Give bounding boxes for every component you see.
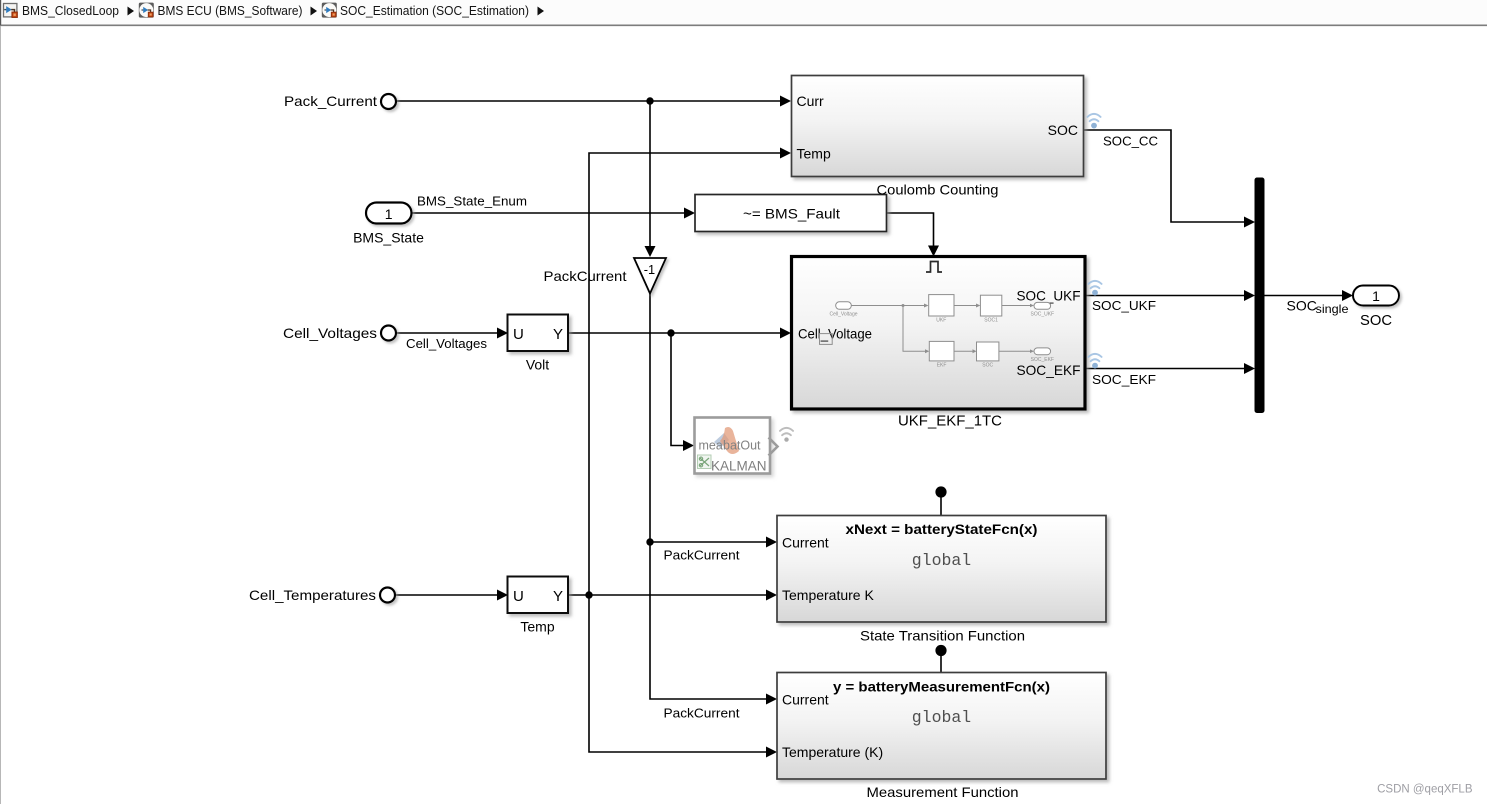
wire Temp selector to State Transition Temperature K bbox=[569, 594, 768, 596]
svg-text:SOC_EKF: SOC_EKF bbox=[1017, 362, 1081, 378]
wire stub Measurement top bbox=[940, 655, 942, 673]
inport Cell_Voltages bbox=[381, 326, 396, 341]
preview arrowheads bbox=[924, 304, 929, 308]
preview box EKF bbox=[929, 341, 954, 361]
outport SOC bbox=[1353, 286, 1399, 306]
svg-text:batOut: batOut bbox=[723, 439, 761, 453]
function State Transition bbox=[777, 516, 1106, 623]
svg-text:Temperature K: Temperature K bbox=[782, 587, 874, 603]
svg-text:PackCurrent: PackCurrent bbox=[544, 268, 627, 284]
badge wifi SOC_CC bbox=[1087, 114, 1100, 129]
arrow into UKF Cell_Voltage bbox=[780, 328, 791, 339]
arrow into Coulomb Curr bbox=[780, 96, 791, 107]
compare block ~= BMS_Fault bbox=[695, 195, 887, 232]
svg-text:Measurement Function: Measurement Function bbox=[867, 784, 1019, 800]
arrow into Measurement Temperature bbox=[766, 747, 777, 758]
svg-text:BMS_ClosedLoop: BMS_ClosedLoop bbox=[22, 4, 119, 18]
selector Volt bbox=[508, 315, 569, 352]
function Measurement bbox=[777, 673, 1106, 780]
svg-text:xNext = batteryStateFcn(x): xNext = batteryStateFcn(x) bbox=[846, 521, 1038, 537]
scissors badge bbox=[698, 455, 712, 469]
svg-text:CSDN @qeqXFLB: CSDN @qeqXFLB bbox=[1377, 784, 1473, 796]
node unconnected State stub bbox=[935, 486, 946, 497]
gain -1 bbox=[634, 258, 666, 294]
svg-text:BMS ECU (BMS_Software): BMS ECU (BMS_Software) bbox=[158, 4, 303, 18]
svg-text:SOC: SOC bbox=[1287, 298, 1317, 314]
subsystem Coulomb Counting bbox=[792, 76, 1084, 177]
svg-text:U: U bbox=[513, 588, 524, 605]
wire compare to UKF trigger bbox=[887, 213, 934, 246]
svg-text:SOC1: SOC1 bbox=[984, 318, 998, 324]
node Cell_Voltage branch bbox=[667, 329, 674, 336]
breadcrumb icon model bbox=[4, 4, 18, 18]
preview overlap box bbox=[820, 334, 833, 345]
svg-text:EKF: EKF bbox=[937, 363, 947, 369]
svg-text:Cell_Voltage: Cell_Voltage bbox=[798, 326, 872, 342]
breadcrumb sep bbox=[311, 7, 318, 16]
preview outport SOC_EKF bbox=[1034, 348, 1051, 355]
wire BMS_State to compare bbox=[412, 212, 686, 214]
svg-text:Pack_Current: Pack_Current bbox=[284, 93, 377, 109]
svg-text:single: single bbox=[1316, 302, 1349, 316]
arrow into SOC outport bbox=[1342, 290, 1353, 301]
svg-text:~= BMS_Fault: ~= BMS_Fault bbox=[743, 206, 840, 222]
wire Volt to UKF Cell_Voltage bbox=[569, 332, 782, 334]
preview box UKF bbox=[929, 295, 954, 316]
svg-text:SOC_Estimation (SOC_Estimation: SOC_Estimation (SOC_Estimation) bbox=[340, 4, 529, 18]
svg-text:y = batteryMeasurementFcn(x): y = batteryMeasurementFcn(x) bbox=[833, 679, 1050, 695]
inport BMS_State bbox=[366, 203, 412, 224]
node PackCurrent branch to State bbox=[646, 538, 653, 545]
svg-text:mea: mea bbox=[699, 439, 723, 453]
arrow SOC_UKF into mux bbox=[1244, 290, 1255, 301]
arrow SOC_CC into mux bbox=[1244, 217, 1255, 228]
svg-text:Cell_Voltage: Cell_Voltage bbox=[829, 312, 857, 318]
inport Pack_Current bbox=[381, 94, 396, 109]
svg-text:SOC: SOC bbox=[1048, 122, 1078, 138]
svg-text:global: global bbox=[912, 708, 971, 727]
trigger pulse symbol bbox=[926, 262, 942, 273]
arrow into Coulomb Temp bbox=[780, 148, 791, 159]
wire mux to SOC outport bbox=[1265, 295, 1344, 297]
arrow into compare bbox=[684, 208, 695, 219]
preview inport oval bbox=[836, 302, 852, 310]
selector Temp bbox=[508, 577, 569, 614]
arrow into gain top bbox=[645, 246, 656, 257]
svg-text:SOC_EKF: SOC_EKF bbox=[1031, 357, 1054, 363]
svg-text:BMS_State_Enum: BMS_State_Enum bbox=[417, 194, 527, 209]
preview box SOC bbox=[977, 342, 999, 361]
badge wifi SOC_UKF bbox=[1088, 281, 1101, 296]
svg-text:1: 1 bbox=[385, 206, 393, 222]
node unconnected Measurement stub bbox=[935, 645, 946, 656]
arrow into State Temperature K bbox=[766, 590, 777, 601]
mux bbox=[1255, 178, 1265, 414]
wire SOC_UKF to mux bbox=[1086, 295, 1246, 297]
svg-text:Y: Y bbox=[553, 326, 563, 343]
inport Cell_Temperatures bbox=[380, 588, 395, 603]
svg-text:SOC: SOC bbox=[982, 363, 993, 369]
arrow SOC_EKF into mux bbox=[1244, 363, 1255, 374]
wire gain output down to Measurement Current bbox=[650, 294, 767, 700]
arrow into Temp bbox=[497, 590, 508, 601]
wire branch to State Transition Current bbox=[650, 541, 767, 543]
svg-text:KALMAN: KALMAN bbox=[711, 459, 767, 474]
svg-text:BMS_State: BMS_State bbox=[353, 230, 424, 246]
wire Cell_Voltages to Volt bbox=[397, 332, 499, 334]
svg-text:Current: Current bbox=[782, 535, 829, 551]
wire branch to KALMAN bbox=[671, 333, 684, 446]
preview outport SOC_UKF bbox=[1034, 302, 1051, 309]
svg-text:Temperature (K): Temperature (K) bbox=[782, 744, 883, 760]
wire stub State Transition top bbox=[940, 496, 942, 516]
arrow into KALMAN bbox=[683, 440, 694, 451]
arrowheads bbox=[497, 96, 1353, 758]
svg-text:SOC: SOC bbox=[1360, 313, 1392, 329]
svg-text:Temp: Temp bbox=[520, 619, 554, 635]
wire vertical PackCurrent down to gain bbox=[649, 101, 651, 246]
UKF preview contents bbox=[820, 295, 1051, 361]
arrow into State Current bbox=[766, 537, 777, 548]
svg-text:SOC_EKF: SOC_EKF bbox=[1092, 372, 1156, 387]
svg-text:SOC_CC: SOC_CC bbox=[1103, 134, 1158, 149]
svg-text:SOC_UKF: SOC_UKF bbox=[1030, 312, 1054, 318]
svg-text:Temp: Temp bbox=[797, 146, 831, 162]
svg-text:SOC_UKF: SOC_UKF bbox=[1017, 288, 1081, 304]
svg-text:U: U bbox=[513, 326, 524, 343]
svg-text:Volt: Volt bbox=[526, 357, 549, 373]
preview box SOC1 bbox=[980, 295, 1001, 316]
svg-text:SOC_UKF: SOC_UKF bbox=[1092, 298, 1156, 313]
KALMAN commented block bbox=[695, 418, 778, 474]
svg-text:Cell_Temperatures: Cell_Temperatures bbox=[249, 587, 376, 603]
arrow into Measurement Current bbox=[766, 694, 777, 705]
output chevron bbox=[769, 438, 778, 456]
svg-text:UKF: UKF bbox=[936, 318, 946, 324]
breadcrumb icon subsystem 2 bbox=[139, 3, 154, 18]
arrow into Volt bbox=[497, 328, 508, 339]
svg-text:-1: -1 bbox=[644, 262, 655, 277]
svg-text:Y: Y bbox=[553, 588, 563, 605]
svg-text:global: global bbox=[912, 551, 971, 570]
junction dots bbox=[585, 97, 946, 656]
badge wifi SOC_EKF bbox=[780, 428, 793, 442]
wire Temp vertical from Coulomb Temp down to Measurement Temperature bbox=[589, 153, 781, 752]
svg-text:State Transition Function: State Transition Function bbox=[860, 628, 1025, 644]
wire Cell_Temperatures to Temp bbox=[396, 594, 499, 596]
matlab logo faded bbox=[714, 433, 729, 448]
breadcrumb sep bbox=[128, 7, 135, 16]
breadcrumb sep bbox=[538, 7, 545, 16]
svg-text:Cell_Voltages: Cell_Voltages bbox=[283, 325, 377, 341]
node Pack_Current branch bbox=[646, 97, 653, 104]
svg-text:Coulomb Counting: Coulomb Counting bbox=[877, 182, 999, 198]
svg-text:UKF_EKF_1TC: UKF_EKF_1TC bbox=[898, 413, 1002, 430]
wire SOC_EKF to mux bbox=[1086, 368, 1246, 370]
svg-text:Cell_Voltages: Cell_Voltages bbox=[406, 336, 487, 351]
preview wires bbox=[851, 305, 925, 307]
wire Pack_Current to Coulomb Curr bbox=[397, 100, 782, 102]
svg-text:Current: Current bbox=[782, 692, 829, 708]
subsystem UKF_EKF_1TC bbox=[792, 257, 1086, 410]
svg-text:1: 1 bbox=[1372, 288, 1380, 304]
svg-text:PackCurrent: PackCurrent bbox=[664, 548, 740, 563]
node Temp branch bbox=[585, 591, 592, 598]
breadcrumb icon subsystem 3 bbox=[322, 3, 337, 18]
wire SOC_CC to mux bbox=[1084, 130, 1245, 222]
svg-text:PackCurrent: PackCurrent bbox=[664, 706, 740, 721]
svg-text:Curr: Curr bbox=[797, 93, 825, 109]
arrow into UKF trigger bbox=[928, 246, 939, 257]
